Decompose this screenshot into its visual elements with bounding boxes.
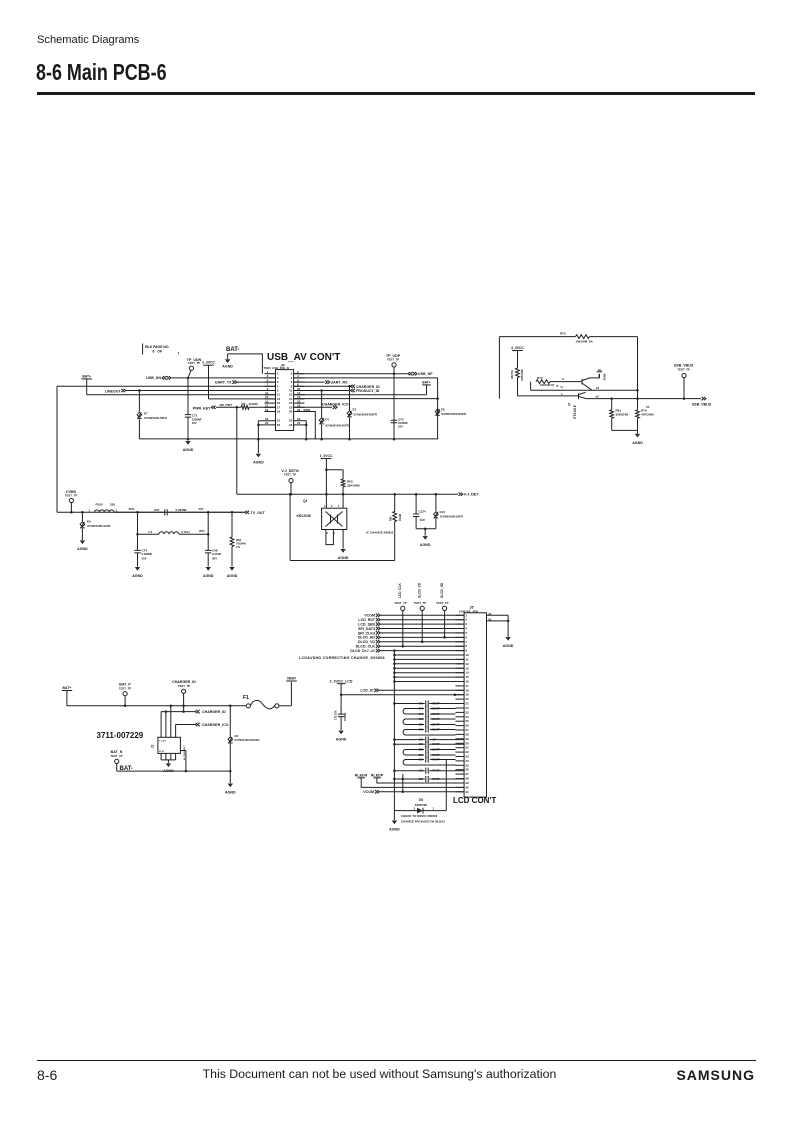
- svg-text:B.: B.: [557, 385, 560, 388]
- wire VCOM row 41: [363, 774, 464, 794]
- svg-text:LCD_RST: LCD_RST: [358, 618, 375, 622]
- ESD device E4: [319, 391, 349, 440]
- svg-text:TEST_TP: TEST_TP: [65, 493, 77, 497]
- node 3711-007229 label: [97, 731, 144, 740]
- svg-text:28: 28: [465, 732, 469, 736]
- svg-text:ICVN0516N-S0FR: ICVN0516N-S0FR: [88, 524, 111, 528]
- node BLK PAGE NO block: [143, 344, 180, 356]
- connector J4 USB_AV CON'T body: [264, 352, 341, 431]
- svg-text:32: 32: [465, 750, 469, 754]
- wire USB_VBUS line: [586, 397, 712, 407]
- test point CVBS: [65, 490, 77, 513]
- svg-text:AGND: AGND: [604, 373, 607, 380]
- svg-text:3_3VCC: 3_3VCC: [320, 454, 333, 458]
- wire LINEOUT (pin9): [105, 389, 276, 394]
- svg-text:DLCD_D<7..2>: DLCD_D<7..2>: [350, 649, 375, 653]
- transistor Q4 KRC203E: [297, 499, 347, 535]
- svg-text:0OHM: 0OHM: [399, 514, 402, 521]
- wire CHARGER_ICO row: [176, 723, 229, 727]
- wire pin14 USB_VBUS sense: [294, 398, 438, 400]
- ground AGND (J4 shield): [253, 439, 264, 464]
- capacitor C124: [413, 494, 426, 529]
- svg-text:7: 7: [178, 352, 180, 356]
- svg-text:4700PF: 4700PF: [432, 754, 441, 757]
- svg-text:LCD_CLK: LCD_CLK: [398, 582, 402, 598]
- svg-text:4700PF: 4700PF: [432, 703, 441, 706]
- svg-text:E3: E3: [353, 407, 357, 411]
- svg-text:4,: 4,: [561, 393, 563, 396]
- ESD device E9: [80, 512, 110, 540]
- transistor Q3 upper half: [582, 370, 607, 390]
- connector J5 pins 1-41: [456, 613, 470, 794]
- wire DLCD_D bus taps rows 10-16: [393, 649, 464, 682]
- capacitor C71: [185, 378, 202, 439]
- svg-text:BAT-: BAT-: [226, 347, 240, 353]
- svg-text:R75: R75: [560, 331, 566, 335]
- power flag 3_3VCC_LCD row 19: [330, 679, 465, 696]
- node BAT- (top, tied to AGND): [222, 347, 262, 374]
- wire UART_TX (pin5): [215, 380, 276, 384]
- svg-text:C87: C87: [419, 778, 424, 781]
- svg-text:3_3VCC: 3_3VCC: [202, 361, 215, 365]
- svg-text:37: 37: [465, 772, 469, 776]
- svg-text:ICVN0516N-S0FR: ICVN0516N-S0FR: [440, 515, 463, 519]
- connector J4 pins 23/24 to ground: [289, 417, 307, 440]
- svg-text:Q4: Q4: [303, 499, 307, 503]
- svg-text:C78: C78: [419, 718, 424, 721]
- svg-text:21: 21: [465, 702, 469, 706]
- svg-text:1: 1: [465, 613, 467, 617]
- svg-text:15: 15: [465, 675, 469, 679]
- svg-text:16V: 16V: [398, 425, 403, 429]
- svg-text:LCD&VDHD CORRECTING CHANGE_D60: LCD&VDHD CORRECTING CHANGE_D60808: [299, 656, 385, 660]
- ground AGND (E9): [77, 540, 88, 551]
- connector J4 right pins 2-20: [289, 370, 305, 414]
- wire J3 bottom pins to ground: [161, 753, 176, 763]
- power flag BAT+ (left): [82, 374, 276, 394]
- svg-text:SPI_DAT3: SPI_DAT3: [358, 627, 375, 631]
- svg-text:22: 22: [265, 421, 269, 425]
- svg-text:5%: 5%: [646, 406, 650, 409]
- svg-text:36: 36: [465, 768, 469, 772]
- svg-text:3300PF: 3300PF: [432, 749, 441, 752]
- svg-text:6: 6: [331, 505, 333, 508]
- ESD device E7: [137, 391, 167, 439]
- svg-text:ICVN05165X4S2FR: ICVN05165X4S2FR: [441, 412, 466, 416]
- capacitor C72 4700NF: [335, 695, 348, 731]
- svg-text:42: 42: [488, 612, 492, 616]
- svg-text:24: 24: [297, 421, 301, 425]
- svg-text:VCOM: VCOM: [364, 614, 375, 618]
- connector J4 pins 21/22 to ground: [257, 417, 280, 440]
- svg-text:R5: R5: [242, 402, 246, 406]
- svg-text:F1: F1: [243, 695, 249, 701]
- test point LCD_CLK: [394, 582, 406, 647]
- svg-text:13: 13: [465, 666, 469, 670]
- wire USB_DP (pin2) / test point TP_UDP: [294, 354, 434, 439]
- svg-text:P+ ID T: P+ ID T: [159, 741, 167, 743]
- test point BAT_N: [110, 750, 122, 771]
- wire LCD bypass feed bus: [393, 682, 396, 811]
- svg-text:TEST_TP: TEST_TP: [110, 754, 122, 758]
- svg-text:16: 16: [465, 679, 469, 683]
- svg-text:17: 17: [465, 684, 469, 688]
- svg-text:LINEOUT: LINEOUT: [105, 390, 122, 394]
- svg-text:100KOHM: 100KOHM: [521, 369, 524, 380]
- svg-text:C83: C83: [419, 749, 424, 752]
- test point CHARGER_ID: [172, 680, 196, 712]
- svg-text:ICVN061EN-S0FR: ICVN061EN-S0FR: [326, 423, 349, 427]
- wire UART_RX (pin6): [294, 380, 348, 384]
- svg-text:29: 29: [465, 737, 469, 741]
- svg-text:R70: R70: [537, 376, 543, 380]
- wire CHARGER_ID (pin8): [294, 385, 381, 389]
- svg-text:4: 4: [465, 627, 467, 631]
- svg-text:E10: E10: [440, 510, 446, 514]
- svg-text:ICVN5056X4S2FR: ICVN5056X4S2FR: [354, 413, 377, 417]
- svg-text:ICVN0516N-S0FR: ICVN0516N-S0FR: [144, 416, 167, 420]
- svg-text:C77: C77: [419, 713, 424, 716]
- ground AGND (J3): [163, 763, 174, 773]
- wire pin7 from left frame: [57, 385, 276, 387]
- capacitor C74: [134, 534, 152, 566]
- svg-text:AGND: AGND: [222, 364, 233, 368]
- svg-text:20%: 20%: [129, 507, 135, 511]
- svg-text:TEST_TP: TEST_TP: [414, 601, 426, 605]
- connector J5 shield pins 42/43 to ground: [487, 612, 514, 648]
- svg-text:TEST_TP: TEST_TP: [436, 601, 448, 605]
- svg-text:50V: 50V: [212, 556, 217, 560]
- svg-text:RLEDP: RLEDP: [371, 774, 384, 778]
- svg-text:4.7UH: 4.7UH: [181, 530, 190, 534]
- svg-text:LCD_IO: LCD_IO: [360, 689, 373, 693]
- svg-text:2200PF: 2200PF: [432, 713, 441, 716]
- svg-text:CHANGE PACKAGE D6 061103: CHANGE PACKAGE D6 061103: [401, 820, 445, 824]
- power flag 3_3VCC / resistor R69: [511, 346, 524, 396]
- wire VBUS (pin4) to detector: [294, 378, 439, 439]
- svg-text:TEST_TP: TEST_TP: [284, 473, 296, 477]
- svg-text:24: 24: [289, 423, 293, 427]
- svg-text:34: 34: [465, 759, 469, 763]
- svg-text:12: 12: [465, 662, 469, 666]
- svg-text:J3: J3: [151, 745, 155, 749]
- svg-text:CHECK TO DEVIC 060602: CHECK TO DEVIC 060602: [401, 814, 438, 818]
- svg-text:C67: C67: [154, 508, 160, 512]
- svg-text:AGND: AGND: [338, 556, 349, 560]
- wire pin12 / power flag BAT+ (right): [294, 380, 431, 394]
- ground AGND (C124/E10): [416, 527, 436, 546]
- resistor R70 / base network: [531, 376, 638, 390]
- svg-text:5: 5: [465, 631, 467, 635]
- svg-text:4: 4: [324, 505, 326, 508]
- svg-text:UART_TX: UART_TX: [215, 380, 232, 384]
- ground AGND (R84): [227, 567, 238, 578]
- svg-text:LCD CON'T: LCD CON'T: [453, 796, 496, 805]
- svg-text:IC CHANGE 060811: IC CHANGE 060811: [366, 531, 394, 535]
- svg-text:3711-007229: 3711-007229: [97, 731, 144, 740]
- wire AGND bus under J4: [139, 438, 437, 441]
- wire BAT+ rail: [67, 705, 246, 708]
- svg-text:e3: e3: [596, 394, 600, 398]
- ground AGND (Q4): [338, 530, 349, 560]
- svg-text:AGND: AGND: [420, 543, 431, 547]
- wire bypass loop returns: [403, 709, 455, 766]
- svg-text:2: 2: [116, 508, 118, 512]
- svg-text:E4: E4: [325, 418, 329, 422]
- svg-text:NR_PWT: NR_PWT: [220, 403, 233, 407]
- svg-text:D6: D6: [419, 798, 423, 802]
- capacitors C75-C87 LCD bypass: [394, 700, 464, 782]
- svg-text:C80: C80: [419, 729, 424, 732]
- svg-text:C84: C84: [419, 754, 424, 757]
- svg-text:10KOHM 5%: 10KOHM 5%: [540, 384, 555, 387]
- resistor R75 feedback loop: [499, 331, 637, 398]
- svg-text:1UF: 1UF: [420, 518, 426, 522]
- svg-text:4E_9UW5WW-T: 4E_9UW5WW-T: [183, 744, 186, 760]
- svg-text:KRC203E: KRC203E: [297, 514, 311, 518]
- svg-text:47KOHM: 47KOHM: [641, 412, 654, 416]
- svg-text:2200PF: 2200PF: [432, 729, 441, 732]
- ground AGND (C74): [132, 567, 143, 578]
- svg-text:50V: 50V: [199, 507, 204, 511]
- wire CHARGER_ICO (pin18): [294, 403, 349, 412]
- svg-text:0OHM: 0OHM: [249, 402, 258, 406]
- svg-text:20: 20: [465, 697, 469, 701]
- node RLEDP: [371, 774, 464, 783]
- svg-text:C82: C82: [419, 743, 424, 746]
- svg-text:25: 25: [465, 719, 469, 723]
- power flag BAT+ (battery): [62, 686, 72, 706]
- svg-text:35: 35: [465, 763, 469, 767]
- svg-text:C81: C81: [419, 739, 424, 742]
- svg-text:4700PF: 4700PF: [432, 759, 441, 762]
- wire V-J_DET line: [237, 407, 479, 496]
- svg-text:19: 19: [265, 408, 269, 412]
- wire left frame + TV_OUT line: [57, 386, 265, 515]
- svg-text:26: 26: [465, 724, 469, 728]
- svg-text:43: 43: [488, 617, 492, 621]
- test point DLCD_VD: [414, 582, 426, 643]
- svg-text:VBAT: VBAT: [287, 676, 297, 680]
- svg-text:31: 31: [465, 746, 469, 750]
- svg-text:41: 41: [465, 790, 469, 794]
- svg-text:6: 6: [562, 377, 564, 381]
- svg-text:AGND: AGND: [632, 441, 643, 445]
- connector J4 left pins 1-19: [265, 370, 281, 414]
- ground AGND (C72): [336, 731, 347, 742]
- svg-text:22: 22: [465, 706, 469, 710]
- ground AGND (R79/R81): [632, 430, 643, 444]
- ground AGND (E6): [225, 784, 236, 795]
- svg-text:DLCD_VD: DLCD_VD: [358, 640, 375, 644]
- svg-text:3300PF: 3300PF: [432, 724, 441, 727]
- svg-text:AGND: AGND: [77, 547, 88, 551]
- svg-text:1: 1: [89, 508, 91, 512]
- wire DLCD_D bus row 9: [299, 649, 464, 660]
- svg-text:18: 18: [465, 688, 469, 692]
- svg-text:UART_RX: UART_RX: [331, 380, 349, 384]
- svg-text:38: 38: [465, 777, 469, 781]
- svg-text:AGND: AGND: [253, 461, 264, 465]
- ground AGND (D6): [389, 811, 400, 832]
- svg-text:BAT-: BAT-: [120, 766, 134, 772]
- test point BAT_P: [119, 682, 132, 705]
- svg-text:C86: C86: [419, 770, 424, 773]
- svg-text:5: 5: [338, 505, 340, 508]
- power flag 3_3VCC (Q4): [320, 454, 333, 508]
- svg-text:6 OF: 6 OF: [153, 349, 162, 353]
- svg-text:2: 2: [327, 532, 329, 535]
- svg-text:C85: C85: [419, 759, 424, 762]
- svg-text:2: 2: [465, 618, 467, 622]
- svg-text:DLCD_CLK: DLCD_CLK: [356, 644, 376, 648]
- connector J5 LCD CON'T body: [453, 605, 496, 805]
- svg-text:19: 19: [277, 410, 281, 414]
- svg-text:R62: R62: [390, 516, 393, 521]
- svg-text:20%: 20%: [199, 529, 205, 533]
- svg-text:4700PF: 4700PF: [432, 770, 441, 773]
- svg-text:23: 23: [465, 710, 469, 714]
- svg-text:AGND: AGND: [225, 790, 236, 794]
- ferrite bead FB10: [89, 502, 135, 512]
- capacitor C70: [391, 417, 408, 428]
- svg-text:7: 7: [465, 640, 467, 644]
- svg-text:USB_VBUS: USB_VBUS: [692, 402, 712, 406]
- wire PRODUCT_ID (pin10): [294, 389, 380, 393]
- svg-text:R69 5%: R69 5%: [511, 369, 514, 378]
- svg-text:AGND: AGND: [203, 574, 214, 578]
- resistor R79 47KOHM: [612, 337, 654, 431]
- wire LCD_IO row 18: [360, 689, 464, 693]
- svg-text:RLEDN: RLEDN: [355, 774, 368, 778]
- svg-text:BLK PAGE NO.: BLK PAGE NO.: [145, 345, 169, 349]
- svg-text:DLCD_VD: DLCD_VD: [418, 582, 422, 598]
- svg-text:SPI_CLK3: SPI_CLK3: [358, 631, 375, 635]
- svg-text:V-J_DET: V-J_DET: [464, 493, 479, 497]
- svg-text:BAT+: BAT+: [422, 380, 430, 384]
- resistor R84 75OHM: [230, 512, 246, 566]
- node RLEDN: [355, 774, 464, 788]
- svg-text:DLCD_HD: DLCD_HD: [358, 636, 376, 640]
- svg-text:3_3VCC: 3_3VCC: [511, 346, 524, 350]
- test point TP_UDN: [187, 358, 202, 378]
- svg-text:8: 8: [465, 644, 467, 648]
- wire CHARGER_ID row: [161, 710, 226, 714]
- svg-text:6: 6: [465, 635, 467, 639]
- svg-text:TEST_TP: TEST_TP: [677, 367, 689, 371]
- svg-text:PRODUCT_ID: PRODUCT_ID: [356, 389, 380, 393]
- svg-text:1%: 1%: [236, 545, 241, 549]
- svg-text:4700PF: 4700PF: [432, 718, 441, 721]
- svg-text:40: 40: [465, 785, 469, 789]
- capacitor C68: [205, 534, 221, 566]
- resistor R62 0OHM loop: [290, 494, 402, 560]
- svg-text:3_3VCC_LCD: 3_3VCC_LCD: [330, 679, 353, 683]
- svg-text:USB_DN: USB_DN: [146, 376, 161, 380]
- diode D6 KDR722E: [394, 760, 446, 824]
- svg-text:TEST_TP: TEST_TP: [387, 357, 399, 361]
- wire BAT- rail: [117, 751, 232, 773]
- svg-text:4700PF: 4700PF: [432, 778, 441, 781]
- svg-text:C75: C75: [419, 703, 424, 706]
- svg-text:24: 24: [465, 715, 469, 719]
- svg-text:FB10: FB10: [96, 502, 104, 506]
- svg-text:33: 33: [465, 755, 469, 759]
- svg-text:BAT+: BAT+: [82, 374, 91, 378]
- svg-text:AGND: AGND: [227, 574, 238, 578]
- svg-text:30: 30: [465, 741, 469, 745]
- power flag 3_3VCC (left): [202, 361, 275, 399]
- resistor R63 33KOHM: [326, 470, 360, 509]
- svg-text:DLCD_HD: DLCD_HD: [440, 582, 444, 598]
- fuse F1: [243, 682, 291, 709]
- resistor R81 33KOHM: [610, 399, 629, 431]
- svg-text:KDR722E: KDR722E: [415, 803, 428, 807]
- svg-text:TEST_TP: TEST_TP: [394, 601, 406, 605]
- wire PWR_KEY / resistor R5 0OHM (pin17): [193, 402, 276, 411]
- connector J3 battery: [151, 737, 186, 760]
- svg-text:4700NF: 4700NF: [344, 712, 347, 721]
- transistor Q3 lower half: [518, 392, 600, 419]
- svg-text:USB_DP: USB_DP: [418, 372, 433, 376]
- wire J3 top pins: [161, 706, 176, 738]
- svg-text:10: 10: [465, 653, 469, 657]
- svg-text:TEST_TP: TEST_TP: [178, 684, 190, 688]
- svg-text:16V: 16V: [192, 421, 197, 425]
- svg-text:220: 220: [110, 503, 115, 507]
- svg-text:VCOM: VCOM: [363, 790, 374, 794]
- svg-text:9: 9: [465, 649, 467, 653]
- wire pin20 to ground: [294, 412, 316, 440]
- svg-text:TV_OUT: TV_OUT: [251, 511, 266, 515]
- svg-text:AGND: AGND: [132, 574, 143, 578]
- svg-text:50V: 50V: [142, 556, 147, 560]
- svg-text:TEST_TP: TEST_TP: [188, 361, 200, 365]
- wire LCD signal rows 1-8: [356, 614, 464, 649]
- svg-text:e2: e2: [596, 386, 600, 390]
- svg-text:ICVN05165X4S2FR: ICVN05165X4S2FR: [235, 738, 260, 742]
- svg-text:AGND: AGND: [336, 737, 347, 741]
- ESD device E3: [347, 386, 377, 439]
- svg-text:CHARGER_ICO: CHARGER_ICO: [202, 723, 229, 727]
- svg-text:4700PF: 4700PF: [432, 743, 441, 746]
- ground AGND (C71/E7 branch): [183, 441, 194, 452]
- svg-text:14: 14: [465, 671, 469, 675]
- svg-text:KTX101E: KTX101E: [573, 405, 577, 419]
- svg-text:39: 39: [465, 781, 469, 785]
- svg-text:TEST_TP: TEST_TP: [119, 686, 131, 690]
- test point USB_VBUS: [674, 364, 694, 399]
- ESD device E10: [434, 494, 463, 529]
- svg-text:AGND: AGND: [503, 644, 514, 648]
- svg-text:11: 11: [465, 657, 469, 661]
- svg-text:10KOHM 5%: 10KOHM 5%: [576, 340, 594, 344]
- svg-text:AGND: AGND: [183, 448, 194, 452]
- svg-text:20: 20: [289, 410, 293, 414]
- wire USB_DN (pin3): [146, 376, 275, 380]
- svg-text:5.): 5.): [561, 386, 564, 389]
- svg-text:C124: C124: [419, 509, 427, 513]
- svg-text:0.022NF: 0.022NF: [176, 508, 188, 512]
- ESD device E8: [435, 408, 466, 416]
- svg-text:L3: L3: [149, 530, 153, 534]
- svg-text:3: 3: [465, 622, 467, 626]
- svg-text:LCD_SEN: LCD_SEN: [358, 622, 375, 626]
- svg-text:19: 19: [465, 693, 469, 697]
- ground AGND (C68): [203, 567, 214, 578]
- svg-text:C76: C76: [419, 708, 424, 711]
- svg-text:BAT+: BAT+: [63, 686, 72, 690]
